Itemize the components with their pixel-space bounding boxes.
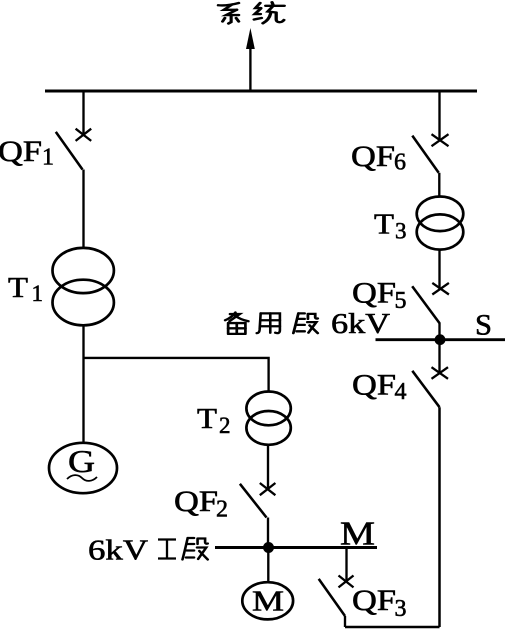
label QF6 <box>351 140 406 176</box>
svg-text:2: 2 <box>219 413 231 438</box>
motor M <box>242 582 293 619</box>
wire T1 to G <box>82 325 84 443</box>
wire bus I to motor <box>267 548 269 583</box>
wire bus S to QF4 <box>438 340 440 373</box>
svg-text:QF: QF <box>352 368 396 401</box>
wire bus to QF1 <box>82 91 84 135</box>
wire QF1 to T1 <box>82 170 84 250</box>
svg-text:T: T <box>197 404 217 435</box>
svg-text:1: 1 <box>32 281 44 306</box>
svg-text:6: 6 <box>394 150 406 176</box>
label T2 <box>197 404 231 438</box>
breaker QF3 <box>319 576 354 617</box>
top busbar <box>45 90 477 93</box>
svg-text:T: T <box>374 210 394 241</box>
wire QF4 down right side <box>438 407 441 627</box>
svg-text:6kV: 6kV <box>331 308 390 340</box>
svg-text:6kV: 6kV <box>88 535 148 567</box>
svg-text:QF: QF <box>352 584 396 617</box>
wire bus I to QF3 <box>345 548 347 582</box>
svg-text:1: 1 <box>42 145 54 171</box>
label T3 <box>374 210 407 244</box>
transformer T1 <box>52 248 113 325</box>
label T1 <box>8 273 43 306</box>
label QF4 <box>352 368 407 405</box>
wire bus to QF6 <box>438 91 440 140</box>
wire T3 to QF5 <box>438 250 440 290</box>
arrow to system <box>246 28 255 90</box>
junction dot on bus S <box>435 334 446 345</box>
label QF3 <box>352 584 407 622</box>
wire QF2 to bus I <box>267 518 269 548</box>
wire T2 to QF2 <box>267 445 269 489</box>
svg-text:S: S <box>475 309 492 342</box>
label 备用段 6kV <box>225 308 390 340</box>
breaker QF4 <box>412 367 448 407</box>
node 系统 (system) label <box>218 3 238 24</box>
wire QF3 to bottom <box>344 616 346 627</box>
breaker QF5 <box>412 283 449 323</box>
wire QF5 to bus S <box>438 322 440 340</box>
svg-text:3: 3 <box>395 218 407 243</box>
label QF2 <box>174 485 228 523</box>
svg-text:T: T <box>8 273 28 304</box>
transformer T3 <box>417 197 464 250</box>
label QF5 <box>352 277 407 314</box>
svg-text:QF: QF <box>352 277 396 310</box>
junction dot on bus I <box>263 542 274 553</box>
svg-text:QF: QF <box>351 140 395 173</box>
transformer T2 <box>246 392 290 445</box>
generator G <box>49 443 117 493</box>
label 6kV I段 <box>88 535 208 567</box>
svg-text:QF: QF <box>174 485 218 518</box>
breaker QF2 <box>240 483 276 518</box>
bus 备用段 6kV (S) <box>376 338 506 341</box>
wire QF6 to T3 <box>438 173 440 197</box>
wire branch to T2 <box>84 358 269 392</box>
breaker QF6 <box>412 134 448 173</box>
svg-text:QF: QF <box>0 135 42 168</box>
svg-text:M: M <box>340 516 375 553</box>
svg-text:2: 2 <box>216 497 228 523</box>
svg-text:3: 3 <box>395 596 407 622</box>
svg-text:G: G <box>68 443 95 479</box>
svg-text:M: M <box>252 586 284 618</box>
label QF1 <box>0 135 54 171</box>
breaker QF1 <box>56 129 91 170</box>
svg-text:4: 4 <box>395 379 407 405</box>
bus 6kV section I <box>215 546 377 549</box>
bottom wire <box>345 626 440 629</box>
svg-text:5: 5 <box>395 288 407 314</box>
